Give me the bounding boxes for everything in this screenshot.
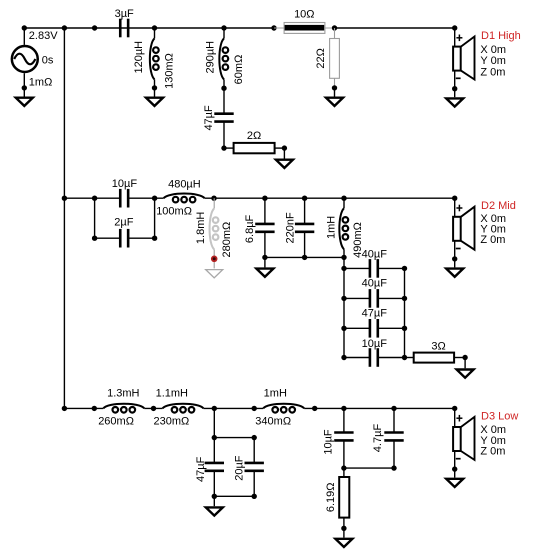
wire 2Ω right lead [275,147,285,149]
svg-text:D3 Low: D3 Low [481,411,518,423]
wire 6.19Ω bottom lead [343,518,345,529]
resistor 10Ω attenuator series [274,23,335,34]
ground under 47µF/20µF bank [206,507,223,515]
wire 47µF to 2Ω node [223,122,225,149]
node 1mH low left terminal [252,406,257,411]
resistor 6.19Ω [339,477,349,518]
wire low bus segment 2 [144,407,162,409]
wire 3Ω to ground [464,358,466,369]
ground under 6.8µF [256,269,273,277]
node 1.8mH red terminal dot [211,255,218,262]
wire 10µF low bottom lead [343,440,345,468]
inductor 120µH shunt [150,38,159,79]
inductor 1.3mH low series [103,404,144,413]
wire 6.8µF to ground [264,257,266,267]
svg-text:1.1mH: 1.1mH [156,387,188,399]
wire trunk vertical from top bus to low bus [63,28,65,408]
wire 4.7µF bottom lead [393,440,395,468]
svg-text:40µF: 40µF [362,278,388,290]
svg-text:D1 High: D1 High [481,30,521,42]
node 1mH mid top terminal [341,196,346,201]
wire source top lead [23,28,25,45]
wire bank row2 left [344,297,370,299]
wire top bus right segment [335,27,455,29]
ground under 22Ω [326,98,343,106]
svg-text:280mΩ: 280mΩ [221,222,233,258]
svg-text:340mΩ: 340mΩ [255,415,291,427]
svg-text:10µF: 10µF [112,178,138,190]
wire bank2 bottom bar [214,495,254,497]
svg-text:4.7µF: 4.7µF [372,424,384,453]
wire bank2 drop [213,408,215,437]
svg-text:230mΩ: 230mΩ [154,415,190,427]
node bank2 bottom right [252,494,257,499]
ground under 3Ω [457,370,474,378]
wire 3Ω right lead [454,357,465,359]
node bank row1 left [341,266,346,271]
inductor 1.1mH low series [163,404,204,413]
node 10Ω left terminal [271,25,276,30]
capacitor 10µF mid series [120,189,128,208]
ground under 6.19Ω [335,539,352,547]
node 6.19Ω bottom terminal [341,526,346,531]
wire cap bank left rail [343,268,345,357]
svg-text:480µH: 480µH [168,179,201,191]
wire 1mH mid bottom lead [343,249,345,268]
node D2 plus terminal [452,196,457,201]
node 290µH top terminal [221,25,226,30]
inductor 290µH series branch [219,38,228,79]
wire 6.8µF bottom lead [264,232,266,258]
node bank row2 right [402,296,407,301]
node 480µH left terminal [152,196,157,201]
svg-text:260mΩ: 260mΩ [98,415,134,427]
svg-text:0s: 0s [42,55,54,67]
wire bank row2 right [378,297,405,299]
svg-text:40µF: 40µF [362,248,388,260]
wire bank row1 left [344,267,370,269]
node 3Ω right terminal [462,355,467,360]
wire mid bus segment 3 [205,197,455,199]
svg-text:220nF: 220nF [285,212,297,243]
ground under D2 [446,269,463,277]
ground under 120µH [146,98,163,106]
svg-text:60mΩ: 60mΩ [233,55,245,85]
wire 220nF top lead [304,198,306,224]
node 10µF low top terminal [341,406,346,411]
wire mid bus segment 1 [64,197,120,199]
wire bank row4 right [378,357,405,359]
capacitor 47µF bank row3 [370,319,378,338]
svg-text:1.8mH: 1.8mH [195,212,207,244]
wire mid shunt bottom bus [265,256,344,258]
capacitor 40µF bank row1 [370,259,378,278]
node 22Ω bottom terminal [332,85,337,90]
svg-text:Z 0m: Z 0m [480,234,505,246]
node source bottom junction [22,85,27,90]
svg-text:47µF: 47µF [362,308,388,320]
node 120µH top terminal [152,25,157,30]
svg-text:20µF: 20µF [234,455,246,481]
wire 20µF top lead [253,438,255,463]
inductor 1.8mH disabled (grey) [213,198,215,268]
capacitor 6.8µF shunt [255,224,274,232]
node 10Ω right terminal [332,25,337,30]
node 1mH low right terminal [312,406,317,411]
resistor 3Ω [414,353,454,363]
node 4.7µF bottom terminal [391,465,396,470]
node 220nF top terminal [302,196,307,201]
svg-text:10Ω: 10Ω [294,9,314,21]
capacitor 3µF high-pass series [120,19,128,38]
wire bank2 top bar [214,437,254,439]
svg-text:6.19Ω: 6.19Ω [325,482,337,512]
ground under 1.8mH (grey) [206,270,223,278]
node 2µF right terminal [152,236,157,241]
wire 2µF branch right rail [154,198,156,238]
svg-text:3Ω: 3Ω [431,340,445,352]
node trunk at mid bus [62,196,67,201]
node bank row4 left [341,355,346,360]
wire low bus segment 4 [304,407,455,409]
wire 20µF bottom lead [253,471,255,497]
inductor 1mH low series [263,404,304,413]
node bank2 top right [252,435,257,440]
capacitor 40µF bank row2 [370,289,378,308]
wire shunt bottom bar low [344,467,394,469]
node 4.7µF top terminal [391,406,396,411]
ground under D1 [446,98,463,106]
speaker D2 [453,198,474,267]
wire source bottom lead [23,73,25,96]
inductor 1mH mid shunt [339,208,348,249]
ground under D3 [446,479,463,487]
node bank row3 right [402,326,407,331]
node D1 plus terminal [452,25,457,30]
wire 47µF low bottom lead [213,471,215,497]
svg-text:D2 Mid: D2 Mid [481,200,516,212]
node bank row2 left [341,296,346,301]
svg-text:130mΩ: 130mΩ [163,53,175,89]
capacitor 10µF bank row4 [370,348,378,367]
node bank2 bottom left [212,494,217,499]
node 47µF-2Ω junction [221,145,226,150]
wire low bus segment 3 [204,407,264,409]
wire 6.19Ω to ground [343,528,345,537]
wire bank row3 right [378,327,405,329]
wire top bus left segment [24,27,274,29]
svg-text:3µF: 3µF [115,8,134,20]
node D1 minus terminal [452,86,457,91]
wire 4.7µF top lead [393,408,395,432]
wire 2µF branch bottom left [95,237,121,239]
svg-text:290µH: 290µH [205,41,217,74]
svg-text:120µH: 120µH [133,41,145,74]
wire bank2 to ground [213,496,215,506]
wire 2Ω to ground [283,148,285,158]
svg-text:2Ω: 2Ω [247,130,261,142]
node 2µF left terminal [92,236,97,241]
node bank row4 right [402,355,407,360]
svg-text:2.83V: 2.83V [29,30,58,42]
wire low bus segment 1 [64,407,103,409]
node 6.8µF top terminal [262,196,267,201]
node bank2 top left [212,435,217,440]
wire 2µF branch bottom right [128,237,154,239]
node mid parallel caps left top [92,196,97,201]
node 6.8µF bottom terminal [262,255,267,260]
wire 6.19Ω top lead [343,468,345,477]
capacitor 47µF high-pass branch [214,114,233,122]
svg-text:1.3mH: 1.3mH [107,387,139,399]
node 220nF bottom terminal [302,255,307,260]
svg-text:Z 0m: Z 0m [480,446,505,458]
capacitor 2µF mid parallel [120,229,128,248]
inductor 1.8mH grey coil [210,208,219,249]
node 10µF low bottom terminal [341,465,346,470]
svg-text:1mH: 1mH [264,387,287,399]
ground under source [16,98,33,106]
capacitor 10µF low shunt [334,433,353,441]
wire 120µH top lead [154,28,156,38]
svg-text:Z 0m: Z 0m [480,66,505,78]
wire 1mH mid top lead [343,198,345,208]
ground under 2Ω [276,160,293,168]
resistor 2Ω [234,143,275,153]
node 1.3mH left terminal [92,406,97,411]
svg-text:10µF: 10µF [323,429,335,455]
node D3 plus terminal [452,406,457,411]
node trunk at top bus [62,25,67,30]
wire 3Ω left lead [405,357,414,359]
capacitor 20µF shunt [245,463,264,471]
capacitor 47µF low shunt [205,463,224,471]
wire 2Ω left lead [224,147,234,149]
speaker D1 [453,28,474,97]
svg-text:1mH: 1mH [326,216,338,239]
wire bank row3 left [344,327,370,329]
svg-text:1mΩ: 1mΩ [29,77,53,89]
wire 10µF low top lead [343,408,345,432]
resistor 22Ω attenuator shunt [330,28,340,88]
capacitor 4.7µF shunt [384,433,403,441]
voltage source V1 (2.83V sine) [12,46,38,72]
speaker D3 [453,408,474,477]
node 290µH bottom terminal [221,86,226,91]
node 1.1mH right terminal [212,406,217,411]
svg-text:6.8µF: 6.8µF [244,214,256,243]
wire cap bank right rail [404,268,406,357]
node D3 minus terminal [452,466,457,471]
wire 120µH bottom lead [154,79,156,96]
wire 220nF bottom lead [304,232,306,258]
wire 2µF branch left rail [94,198,96,238]
inductor 480µH mid series [164,194,205,203]
node 2Ω right terminal [282,145,287,150]
node bank row3 left [341,326,346,331]
node 120µH bottom terminal [152,85,157,90]
node top bus junction [92,25,97,30]
wire 47µF low top lead [213,438,215,463]
node D2 minus terminal [452,256,457,261]
svg-text:10µF: 10µF [362,338,388,350]
svg-text:47µF: 47µF [195,456,207,482]
svg-text:2µF: 2µF [114,217,133,229]
wire bank row1 right [378,267,405,269]
node 480µH right terminal [211,196,216,201]
node source top junction [22,25,27,30]
node bank row1 right [402,266,407,271]
wire 290µH to 47µF [223,79,225,113]
wire 22Ω to ground [334,88,336,97]
node 1mH mid bottom terminal [341,255,346,260]
node trunk at low bus [62,406,67,411]
wire 290µH top lead [223,28,225,38]
wire 6.8µF top lead [264,198,266,224]
svg-text:47µF: 47µF [203,105,215,131]
svg-text:22Ω: 22Ω [315,48,327,68]
wire mid bus segment 2 [128,197,163,199]
wire bank row4 left [344,357,370,359]
svg-text:100mΩ: 100mΩ [156,206,192,218]
node 1.1mH left terminal [151,406,156,411]
capacitor 220nF shunt [295,224,314,232]
